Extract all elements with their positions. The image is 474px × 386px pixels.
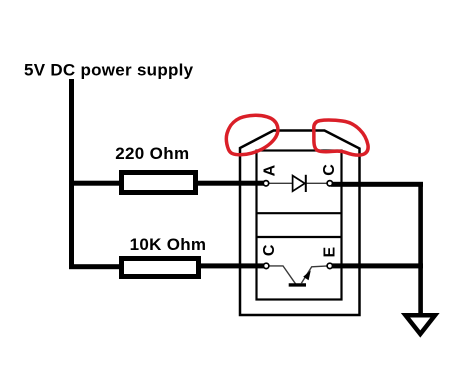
pin terminal C (collector) circle: [264, 263, 269, 268]
wire right vertical rail to ground: [418, 182, 423, 314]
optocoupler U1 outer package outline: [240, 131, 360, 316]
divider line lower: [256, 236, 343, 238]
LED diode D1 triangle: [293, 176, 305, 192]
wire from supply rail to R1 left: [69, 181, 121, 186]
divider line upper: [256, 212, 343, 214]
wire internal anode to cathode: [267, 182, 329, 184]
pin terminal C (cathode) circle: [327, 181, 332, 186]
wire R2 right to collector terminal: [199, 263, 266, 268]
pin terminal E circle: [327, 263, 332, 268]
phototransistor Q1 emitter lead: [301, 266, 328, 284]
svg-text:220 Ohm: 220 Ohm: [115, 144, 189, 163]
svg-text:5V DC power supply: 5V DC power supply: [24, 61, 194, 80]
ground symbol: [406, 315, 436, 334]
phototransistor Q1 emitter arrowhead: [303, 270, 311, 280]
svg-text:C: C: [261, 244, 278, 256]
red annotation circle right (around right chamfer): [314, 120, 368, 155]
phototransistor Q1 base bar: [289, 283, 306, 286]
resistor R2 body: [122, 259, 199, 277]
svg-text:C: C: [321, 164, 338, 176]
LED diode D1 cathode bar: [305, 175, 307, 192]
wire from supply rail to R2 left: [69, 264, 122, 269]
wire R1 right to anode terminal: [196, 181, 266, 186]
svg-text:E: E: [321, 247, 338, 258]
red annotation circle left (around left chamfer): [226, 115, 278, 154]
wire top-right C terminal to right rail: [331, 182, 423, 187]
svg-text:A: A: [262, 164, 279, 176]
wire E terminal to right rail: [331, 263, 423, 268]
resistor R1 body: [122, 173, 196, 193]
phototransistor Q1 collector lead: [267, 266, 296, 284]
wire vertical from 5V supply: [69, 79, 74, 269]
optocoupler U1 inner body rectangle: [257, 151, 342, 300]
pin terminal A circle: [263, 181, 268, 186]
svg-text:10K Ohm: 10K Ohm: [130, 235, 207, 254]
